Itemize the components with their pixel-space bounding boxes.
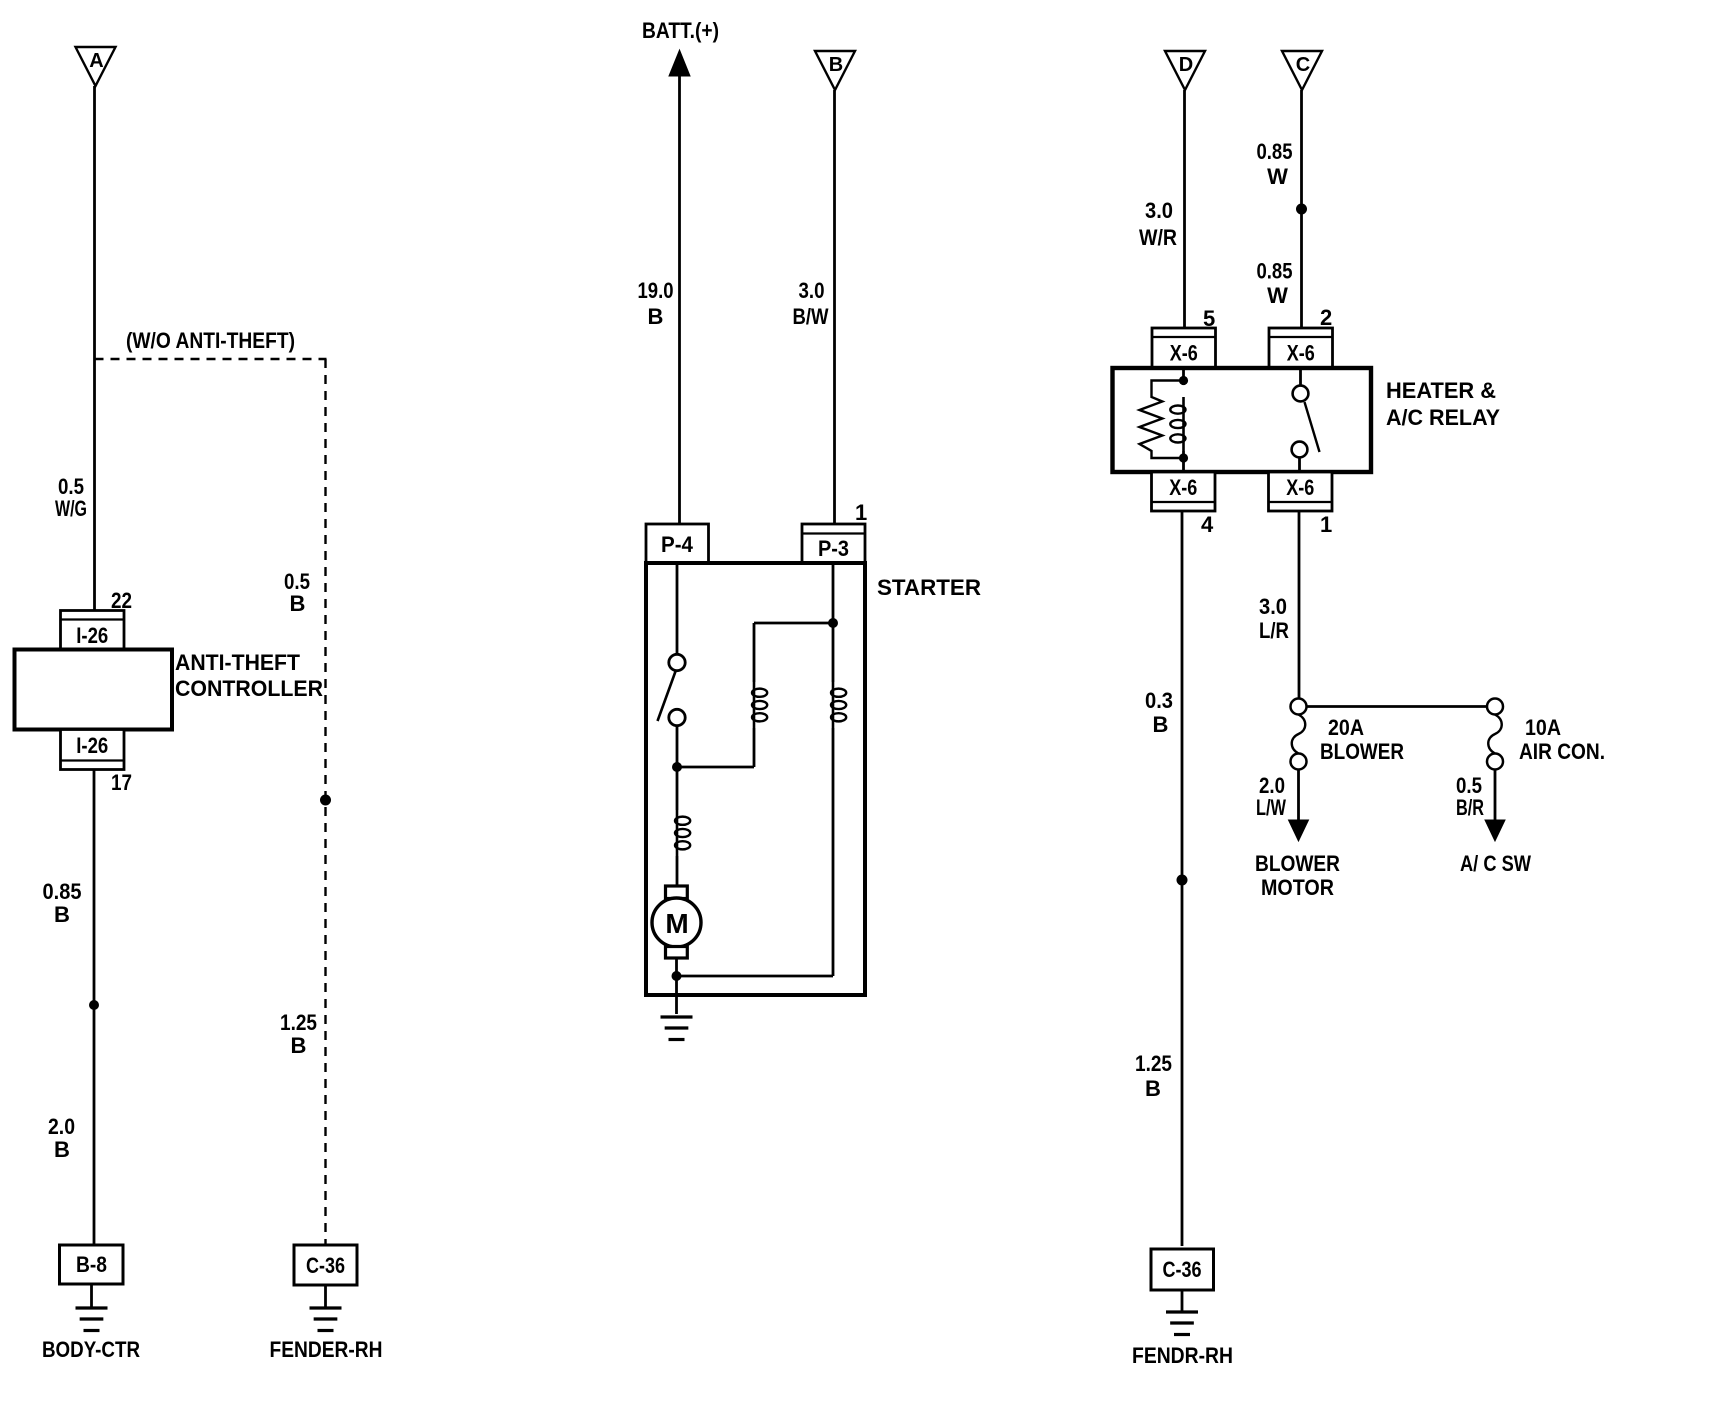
svg-text:B: B [648, 304, 664, 329]
svg-text:A/C RELAY: A/C RELAY [1386, 405, 1500, 430]
svg-text:0.3: 0.3 [1145, 688, 1173, 713]
svg-text:1: 1 [1320, 512, 1332, 537]
svg-text:2: 2 [1320, 305, 1332, 330]
svg-text:B: B [290, 591, 306, 616]
svg-text:C-36: C-36 [1163, 1257, 1202, 1282]
svg-text:B-8: B-8 [76, 1252, 107, 1277]
svg-text:B: B [1145, 1076, 1161, 1101]
svg-text:2.0: 2.0 [48, 1114, 75, 1139]
svg-text:0.85: 0.85 [1257, 139, 1293, 164]
svg-text:I-26: I-26 [76, 733, 108, 758]
svg-text:BLOWER: BLOWER [1255, 851, 1340, 876]
svg-text:B: B [54, 1137, 70, 1162]
svg-text:B: B [1153, 712, 1169, 737]
svg-text:BATT.(+): BATT.(+) [642, 18, 719, 43]
svg-text:L/R: L/R [1259, 618, 1289, 643]
svg-text:17: 17 [111, 770, 132, 795]
svg-text:B/R: B/R [1456, 795, 1484, 820]
svg-text:B/W: B/W [793, 304, 829, 329]
svg-text:P-4: P-4 [661, 532, 694, 557]
svg-text:(W/O ANTI-THEFT): (W/O ANTI-THEFT) [126, 328, 295, 353]
svg-text:FENDER-RH: FENDER-RH [270, 1337, 383, 1362]
svg-text:D: D [1179, 54, 1193, 76]
svg-text:W: W [1267, 164, 1288, 189]
svg-text:19.0: 19.0 [638, 278, 674, 303]
svg-text:I-26: I-26 [76, 623, 108, 648]
svg-text:3.0: 3.0 [799, 278, 825, 303]
svg-text:1.25: 1.25 [1135, 1051, 1172, 1076]
svg-text:P-3: P-3 [818, 536, 849, 561]
svg-text:HEATER &: HEATER & [1386, 378, 1496, 403]
svg-text:CONTROLLER: CONTROLLER [175, 676, 323, 701]
svg-text:0.85: 0.85 [1257, 259, 1293, 284]
svg-text:3.0: 3.0 [1145, 198, 1173, 223]
svg-text:X-6: X-6 [1170, 341, 1198, 366]
svg-text:BLOWER: BLOWER [1320, 739, 1404, 764]
svg-text:L/W: L/W [1256, 795, 1286, 820]
svg-text:W/R: W/R [1139, 225, 1177, 250]
svg-text:X-6: X-6 [1287, 341, 1315, 366]
svg-text:1: 1 [855, 500, 867, 525]
svg-text:M: M [665, 908, 688, 939]
svg-text:C: C [1296, 54, 1310, 76]
svg-text:0.85: 0.85 [43, 879, 82, 904]
svg-text:4: 4 [1201, 512, 1214, 537]
svg-text:X-6: X-6 [1286, 475, 1314, 500]
svg-text:B: B [291, 1033, 307, 1058]
svg-text:B: B [54, 902, 70, 927]
svg-text:STARTER: STARTER [877, 575, 981, 600]
svg-text:X-6: X-6 [1169, 475, 1197, 500]
svg-text:FENDR-RH: FENDR-RH [1132, 1343, 1233, 1368]
svg-text:W: W [1267, 283, 1288, 308]
svg-text:B: B [829, 54, 843, 76]
svg-text:A/ C SW: A/ C SW [1460, 851, 1531, 876]
svg-text:A: A [89, 50, 103, 72]
svg-text:C-36: C-36 [306, 1253, 345, 1278]
svg-text:AIR CON.: AIR CON. [1519, 739, 1605, 764]
svg-text:10A: 10A [1525, 715, 1561, 740]
svg-text:1.25: 1.25 [280, 1010, 317, 1035]
svg-text:ANTI-THEFT: ANTI-THEFT [175, 650, 301, 675]
svg-text:BODY-CTR: BODY-CTR [42, 1337, 140, 1362]
svg-text:W/G: W/G [55, 496, 87, 521]
svg-text:20A: 20A [1328, 715, 1364, 740]
svg-text:MOTOR: MOTOR [1261, 875, 1334, 900]
svg-text:3.0: 3.0 [1259, 594, 1287, 619]
